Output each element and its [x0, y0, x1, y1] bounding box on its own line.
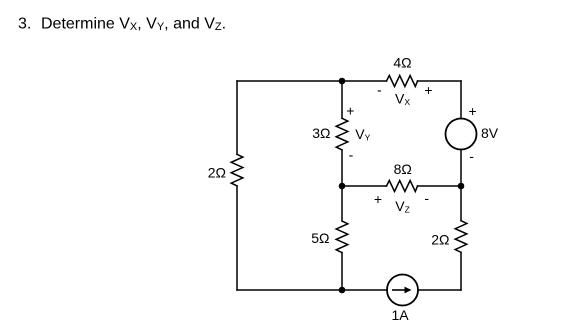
wire top-left horizontal (node TL to node A) — [237, 80, 342, 82]
svg-text:2Ω: 2Ω — [431, 231, 449, 247]
svg-text:5Ω: 5Ω — [311, 230, 329, 246]
svg-text:-: - — [349, 146, 354, 162]
svg-text:-: - — [469, 148, 474, 164]
wire bottom from node D to 1A source — [342, 289, 387, 291]
current source I1 1A (circle with right arrow) — [387, 275, 418, 306]
wire middle vertical from node A to 3ohm — [341, 81, 343, 118]
wire middle horizontal from 8ohm to node C — [418, 185, 462, 187]
svg-text:+: + — [346, 103, 354, 119]
junction node A (top middle) — [339, 78, 346, 85]
svg-text:-: - — [377, 82, 382, 98]
junction node C (middle right) — [458, 183, 465, 190]
svg-text:+: + — [424, 82, 432, 98]
resistor 3ohm (vertical zigzag, middle branch) — [336, 118, 348, 150]
svg-text:1A: 1A — [391, 307, 409, 323]
junction node D (bottom middle) — [339, 287, 346, 294]
wire right vertical from 2ohm to bottom-right corner — [460, 252, 462, 290]
resistor 5ohm (vertical zigzag, middle lower branch) — [336, 221, 348, 253]
svg-text:2Ω: 2Ω — [208, 165, 226, 181]
svg-text:+: + — [469, 103, 477, 119]
wire left vertical upper (TL corner down to 2ohm) — [236, 81, 238, 154]
svg-text:4Ω: 4Ω — [393, 55, 411, 71]
resistor 2ohm left (vertical zigzag, left branch) — [231, 154, 243, 186]
wire bottom from BL corner to node D — [237, 289, 342, 291]
wire right vertical from 8V source to node C — [460, 150, 462, 187]
voltage source U1 8V (circle) — [446, 119, 477, 150]
wire bottom from 1A source to bottom-right corner — [418, 289, 461, 291]
junction node B (middle left) — [339, 183, 346, 190]
wire left vertical lower (2ohm to BL corner) — [236, 186, 238, 290]
wire right vertical from node C to 2ohm — [460, 186, 462, 221]
wire middle vertical from 3ohm to node B — [341, 150, 343, 186]
resistor R 4ohm (horizontal zigzag, top branch) — [387, 76, 418, 87]
resistor 8ohm (horizontal zigzag, middle branch) — [387, 181, 418, 192]
svg-text:3Ω: 3Ω — [312, 125, 330, 141]
wire middle vertical from 5ohm to node D — [341, 253, 343, 290]
svg-text:3.: 3. — [18, 16, 31, 33]
resistor 2ohm right (vertical zigzag, right lower branch) — [455, 221, 467, 253]
wire middle vertical from node B to 5ohm — [341, 186, 343, 221]
svg-text:8Ω: 8Ω — [394, 161, 412, 177]
title text "3. Determine VX, VY, and VZ." — [18, 16, 226, 33]
svg-text:8V: 8V — [481, 125, 499, 141]
svg-text:+: + — [374, 191, 382, 207]
wire middle horizontal from node B to 8ohm — [342, 185, 387, 187]
svg-text:-: - — [424, 190, 429, 206]
wire from 4ohm resistor to top-right corner — [418, 80, 462, 82]
wire right vertical from top-right corner to 8V source — [460, 81, 462, 119]
wire top from node A to 4ohm resistor — [342, 80, 387, 82]
